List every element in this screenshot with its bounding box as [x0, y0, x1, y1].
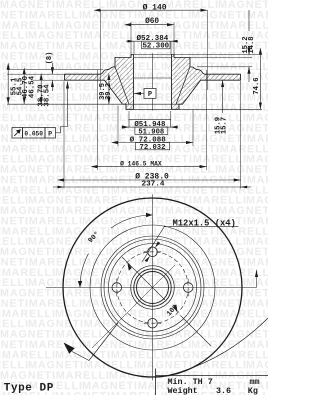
- dimension 55.1/54.5 line: [7, 70, 9, 105]
- vertical centerline: [152, 194, 154, 380]
- dia140 extension left: [100, 10, 102, 90]
- dia60 extension left: [130, 22, 132, 54]
- feature control frame (runout 0.050 P): [12, 128, 23, 139]
- svg-text:15.7: 15.7: [220, 117, 228, 134]
- hat cone inner profile line right: [176, 67, 190, 104]
- band top extension left: [7, 73, 65, 75]
- bore extension down right: [170, 111, 172, 120]
- hat flange edge circle inner: [104, 239, 201, 336]
- M12 text underline: [164, 226, 239, 228]
- disc edge extension right down: [240, 81, 242, 189]
- bolt hole bottom: [148, 318, 158, 328]
- hat cone inner profile line left: [115, 67, 129, 104]
- runout symbol arrow: [14, 131, 19, 136]
- svg-text:Ø 146.5 MAX: Ø 146.5 MAX: [120, 160, 162, 168]
- svg-text:46.54: 46.54: [28, 75, 36, 98]
- dimension 51.908 box frame: [135, 127, 168, 134]
- bolt circle dashed: [117, 252, 188, 323]
- dimension dia51.948 box frame: [129, 120, 171, 128]
- dimension dia60 line: [131, 24, 174, 26]
- surface arrow bottom left with bent leader: [64, 343, 75, 354]
- mounting face line with left extension: [7, 103, 183, 105]
- dimension 15.9/15.7 line: [222, 80, 224, 113]
- datum P leader arrow to bore wall: [134, 93, 144, 95]
- dimension 38.70/38.54 line: [40, 80, 42, 104]
- bore extension up right: [170, 41, 172, 54]
- svg-text:P: P: [148, 91, 152, 99]
- bore circle: [137, 272, 169, 304]
- 90 degree dimension arc: [80, 215, 153, 288]
- hub face circle: [131, 266, 175, 310]
- svg-text:0.050: 0.050: [24, 131, 43, 138]
- svg-text:72.032: 72.032: [140, 144, 166, 152]
- svg-text:39.2: 39.2: [105, 83, 113, 100]
- bore extension down left: [128, 111, 130, 120]
- bolt hole right: [183, 283, 193, 293]
- svg-text:3.6: 3.6: [216, 386, 231, 395]
- right angled leader with up arrow: [256, 270, 258, 288]
- svg-text:Weight: Weight: [168, 386, 198, 395]
- svg-text:74.6: 74.6: [253, 77, 261, 94]
- min TH box left edge: [155, 369, 157, 395]
- dia100 arrows on diagonal: [127, 262, 177, 312]
- svg-text:Ø60: Ø60: [145, 17, 159, 26]
- dia51.948 outside arrows: [122, 126, 130, 128]
- flange top extension left: [7, 69, 103, 71]
- flange top extension right: [197, 66, 252, 68]
- svg-text:14.8: 14.8: [248, 36, 256, 53]
- hub pilot ring top extension right: [174, 54, 262, 56]
- bore extension up left: [133, 41, 135, 54]
- bolt hole top: [148, 247, 158, 257]
- second diagonal centerline lower-left: [92, 265, 175, 348]
- dimension 46.70/46.54 line: [23, 74, 25, 104]
- dimension 39.5/39.2 line: [108, 80, 110, 104]
- dia146.5 extension right: [206, 70, 208, 170]
- svg-text:Ø 140: Ø 140: [143, 4, 167, 13]
- dia72 extension down right: [192, 110, 194, 146]
- svg-text:Kg: Kg: [248, 386, 258, 395]
- disc section left material (band + hat wall + hub ring): [65, 55, 134, 110]
- disc section right material (band + hat wall + hub ring): [172, 55, 241, 110]
- dia72 extension down left: [117, 106, 119, 146]
- dia60 extension right: [173, 22, 175, 54]
- hub boss circle: [109, 244, 197, 332]
- break curve from note box sweeping up right: [168, 318, 268, 376]
- dimension (8) arrows outside band: [51, 63, 53, 74]
- hub tier top extension right: [190, 57, 252, 59]
- svg-text:Type DP: Type DP: [4, 382, 54, 394]
- hat flange edge circle outer: [101, 236, 204, 339]
- dia146.5 extension left: [97, 70, 99, 170]
- dimension 52.300 box frame: [142, 41, 170, 49]
- braking band inner edge circle: [90, 225, 215, 350]
- horizontal centerline: [46, 287, 257, 289]
- dimension dia140 line: [101, 9, 208, 11]
- dia140 extension right: [206, 10, 208, 90]
- dimension 237.4 line with outside arrows: [53, 186, 251, 188]
- bolt circle diameter diagonal dim line with text gap: [122, 257, 211, 346]
- dimension 15.2/14.8 ensemble right: [248, 10, 250, 31]
- dimension 74.6 line: [259, 55, 261, 110]
- M12 leader through top hole: [142, 226, 165, 263]
- feature frame leader to band underside: [56, 82, 68, 133]
- svg-text:P: P: [48, 131, 52, 139]
- svg-text:237.4: 237.4: [141, 181, 164, 189]
- dimension 72.032 box frame: [135, 143, 169, 150]
- dimension dia146.5 line: [98, 166, 207, 168]
- svg-text:52.300: 52.300: [142, 43, 169, 51]
- disc outer circle: [63, 198, 242, 377]
- bore chamfer circle: [134, 269, 171, 306]
- svg-text:38.54: 38.54: [44, 84, 52, 107]
- bolt hole left: [112, 283, 122, 293]
- svg-text:(8): (8): [46, 52, 54, 65]
- section axis centerline: [152, 53, 154, 110]
- dimension dia72.088 line: [118, 142, 193, 144]
- dimension dia238.0 line: [64, 179, 241, 181]
- bore far-side edge line: [134, 77, 172, 79]
- min TH box top edge: [156, 375, 269, 377]
- svg-text:51.908: 51.908: [138, 128, 164, 136]
- datum P box: [144, 89, 156, 99]
- disc edge extension left down: [63, 81, 65, 189]
- band bottom extension left: [33, 79, 65, 81]
- dimension dia52.384 line with outside arrows: [126, 40, 178, 42]
- svg-text:M12x1.5 (x4): M12x1.5 (x4): [173, 219, 236, 229]
- hub register bottom line with right extension: [126, 108, 262, 110]
- ring top far-side lines across bore: [134, 54, 172, 56]
